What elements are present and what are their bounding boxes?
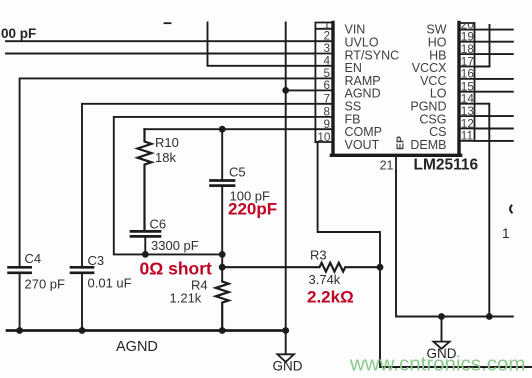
wire pin19 HO xyxy=(475,41,513,43)
wire pin16 VCC xyxy=(475,78,513,80)
wire pin3 RT/SYNC xyxy=(6,53,315,55)
capacitor C3 xyxy=(71,267,93,273)
node PGND rail junction xyxy=(486,313,493,320)
resistor R4 xyxy=(216,282,229,331)
svg-text:10: 10 xyxy=(317,130,331,144)
wire EP to power ground rail xyxy=(396,172,513,317)
svg-text:C3: C3 xyxy=(88,253,105,268)
node COMP junction xyxy=(219,126,226,133)
svg-text:DEMB: DEMB xyxy=(410,138,446,152)
svg-text:C6: C6 xyxy=(150,217,167,232)
capacitor C6 xyxy=(131,231,160,236)
wire pin7 SS to C3 xyxy=(82,104,315,267)
wire top stub fragment xyxy=(165,22,171,24)
IC left pin boxes xyxy=(315,23,333,143)
node C6 junction xyxy=(142,251,149,258)
wire pin5 RAMP to C4 xyxy=(20,78,316,266)
svg-text:2.2kΩ: 2.2kΩ xyxy=(307,287,354,306)
wire pin12 CS xyxy=(475,128,513,130)
svg-text:270 pF: 270 pF xyxy=(25,277,66,292)
IC U1 LM25116 body xyxy=(331,23,460,156)
svg-text:7: 7 xyxy=(323,92,330,106)
svg-text:6: 6 xyxy=(323,78,330,92)
svg-text:3300 pF: 3300 pF xyxy=(151,238,199,253)
wire pin13 CSG xyxy=(475,115,513,117)
node GND stub junction xyxy=(438,313,445,320)
resistor R3 xyxy=(222,263,380,272)
svg-text:C4: C4 xyxy=(25,251,42,266)
svg-text:0Ω short: 0Ω short xyxy=(140,258,213,278)
wire pin4 EN xyxy=(208,23,316,66)
svg-text:11: 11 xyxy=(461,129,473,143)
pin 21 EP box xyxy=(395,156,397,172)
wire pin6 AGND horizontal xyxy=(286,89,316,91)
wire pin10 VOUT feedback path xyxy=(315,142,532,367)
svg-text:R10: R10 xyxy=(155,135,179,150)
wire C3 to AGND rail xyxy=(81,273,83,330)
node rail right junction xyxy=(282,327,289,334)
node pin6 junction xyxy=(282,87,289,94)
node R4 rail junction xyxy=(219,327,226,334)
svg-text:VOUT: VOUT xyxy=(345,138,380,152)
wire pin8 FB xyxy=(114,117,316,255)
AGND rail xyxy=(7,329,286,332)
wire pin11 DEMB xyxy=(475,140,513,142)
IC right pin boxes xyxy=(459,23,475,141)
ground symbol right xyxy=(441,317,443,342)
svg-text:EP: EP xyxy=(395,136,407,150)
svg-text:220pF: 220pF xyxy=(228,199,277,218)
resistor R10 xyxy=(138,129,152,231)
wire pin9 COMP xyxy=(144,128,315,130)
svg-text:C5: C5 xyxy=(229,165,246,180)
cropped component fragment right edge xyxy=(510,206,512,213)
wire C6 to FB node xyxy=(144,237,146,255)
svg-text:21: 21 xyxy=(380,159,394,173)
node C5 bottom junction xyxy=(219,251,226,258)
node R3 junction left xyxy=(219,264,226,271)
wire C5 to FB node xyxy=(221,186,223,254)
wire pin20 SW xyxy=(475,29,513,31)
node C3 rail junction xyxy=(79,327,86,334)
wire pin15 LO xyxy=(475,91,513,93)
svg-text:18k: 18k xyxy=(155,150,176,165)
svg-text:0.01 uF: 0.01 uF xyxy=(88,276,132,291)
wire FB node down to R4 xyxy=(221,254,223,281)
svg-text:1: 1 xyxy=(502,226,510,241)
node C4 rail junction xyxy=(16,327,23,334)
capacitor C4 xyxy=(9,267,31,273)
wire pin14 PGND down xyxy=(475,104,490,317)
wire pin17 VCCX bracket xyxy=(475,25,490,67)
wire C5 branch from COMP node xyxy=(221,129,223,180)
wire pin18 HB xyxy=(475,53,513,55)
svg-text:LM25116: LM25116 xyxy=(414,157,479,174)
svg-text:00 pF: 00 pF xyxy=(1,26,36,41)
svg-text:www.cntronics.com: www.cntronics.com xyxy=(349,353,525,376)
node R3 junction right xyxy=(377,264,384,271)
svg-text:GND: GND xyxy=(273,359,303,374)
svg-text:1.21k: 1.21k xyxy=(170,291,202,306)
ground symbol left xyxy=(277,354,294,362)
svg-text:R3: R3 xyxy=(310,248,327,263)
svg-text:3.74k: 3.74k xyxy=(309,272,341,287)
capacitor C5 xyxy=(211,181,235,186)
svg-text:AGND: AGND xyxy=(116,339,158,355)
wire pin6 AGND vertical net xyxy=(285,23,287,355)
wire C4 to AGND rail xyxy=(19,273,21,330)
wire pin2 UVLO xyxy=(6,40,315,42)
